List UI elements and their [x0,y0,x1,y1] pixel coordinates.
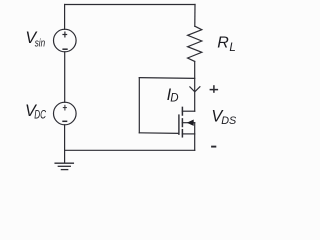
ground bar 2 [58,165,70,167]
wire between sources [64,52,66,103]
transistor Q1 channel body bar [181,119,183,127]
svg-text:L: L [229,42,235,54]
wire body/source vertical to bottom [194,123,196,151]
Vsin plus sign [62,34,67,36]
svg-text:DS: DS [221,115,237,127]
current arrow ID (open head) [190,87,200,92]
resistor RL [188,26,202,61]
ground bar 3 [61,169,67,171]
wire body arrow line [182,122,194,124]
wire drain horizontal [182,110,194,112]
Vsin minus sign [62,48,67,50]
wire gate feedback bottom to gate [139,132,179,135]
transistor Q1 gate bar [178,115,180,134]
wire bottom horizontal [65,149,195,151]
wire top-right vertical to resistor [194,5,196,27]
svg-text:D: D [170,93,178,105]
source Vsin circle [54,29,77,52]
source VDC circle [54,102,77,125]
VDC minus sign [62,120,67,122]
minus sign at source (VDS -) [211,146,216,148]
wire left top [64,5,66,30]
wire resistor to drain [194,61,196,111]
svg-text:DC: DC [34,110,46,122]
transistor Q1 channel source bar [181,130,183,137]
wire source horizontal [182,133,194,135]
wire top horizontal [65,4,195,6]
wire gate feedback top edge [139,77,194,80]
plus sign at drain (VDS +) [210,89,219,91]
VDC plus sign [63,107,67,109]
transistor Q1 channel drain bar [181,107,183,115]
wire gate feedback left edge [138,78,140,133]
ground bar 1 [55,162,73,164]
svg-text:R: R [217,34,229,51]
svg-text:sin: sin [35,38,45,50]
transistor Q1 body arrow head [188,120,194,125]
wire VDC to ground junction [64,125,66,163]
